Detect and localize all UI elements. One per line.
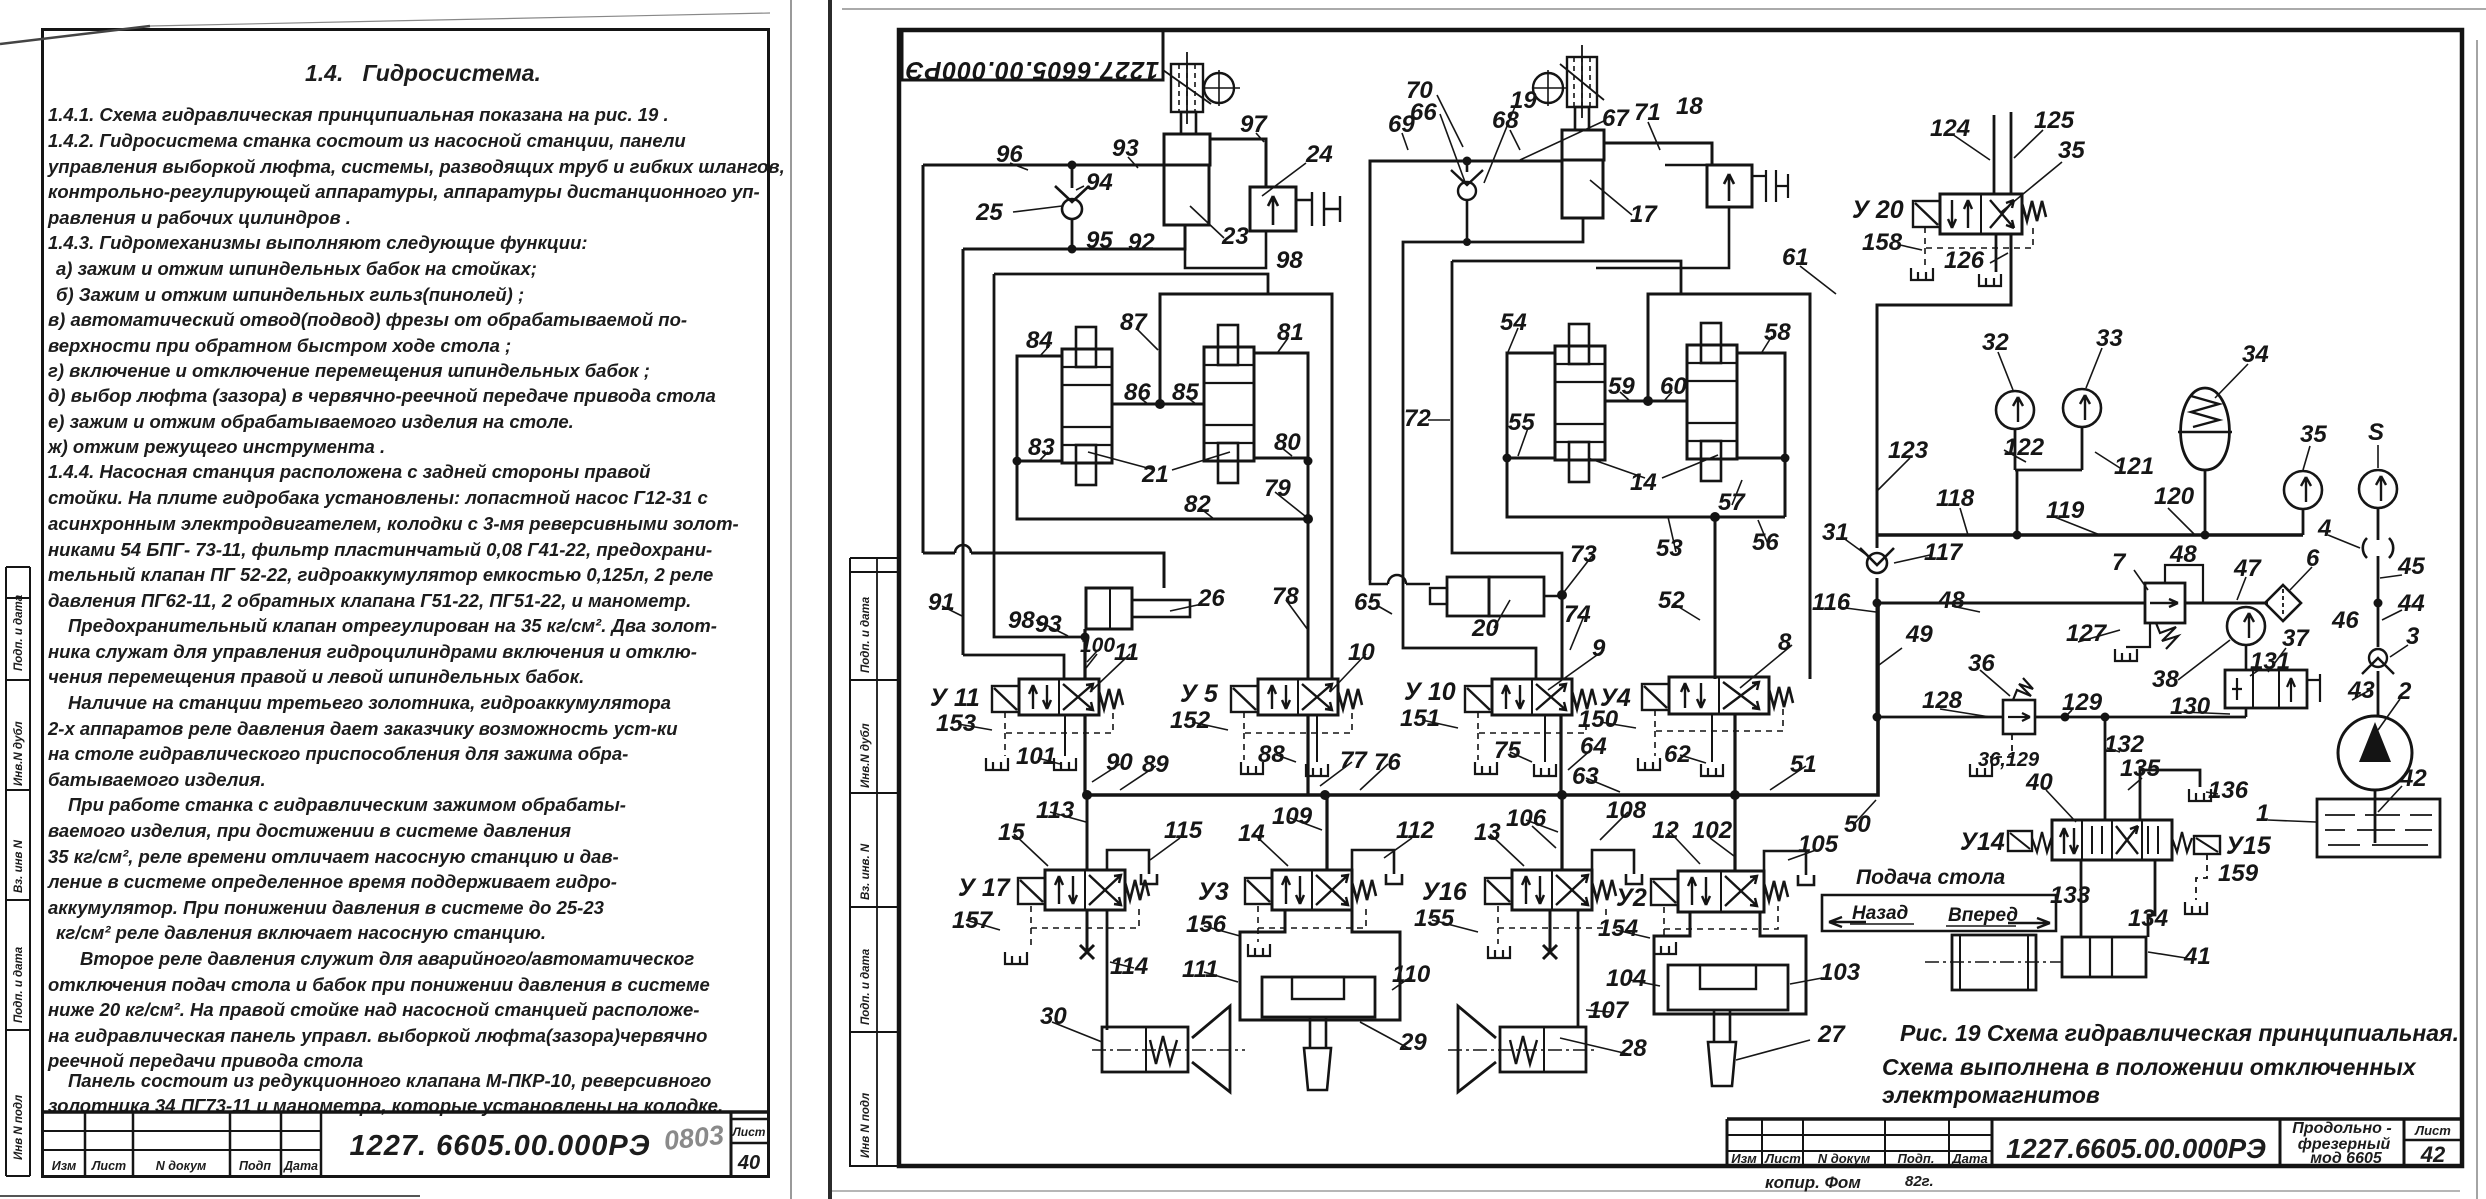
svg-text:119: 119: [2046, 497, 2085, 524]
svg-text:91: 91: [928, 589, 955, 616]
svg-text:48: 48: [2169, 541, 2197, 568]
svg-text:98: 98: [1008, 607, 1035, 634]
pressure bus 118-120: [1877, 533, 2303, 536]
svg-text:66: 66: [1410, 99, 1437, 126]
svg-text:20: 20: [1471, 615, 1499, 642]
svg-text:23: 23: [1221, 223, 1249, 250]
svg-text:28: 28: [1619, 1035, 1647, 1062]
line 128/129/130: [1877, 716, 2246, 719]
svg-text:103: 103: [1820, 959, 1861, 986]
svg-text:Лист: Лист: [1764, 1151, 1801, 1166]
gauge S: [2359, 470, 2397, 508]
valve 24: [1250, 187, 1340, 231]
svg-text:42: 42: [2399, 765, 2427, 792]
wire 71 to valve 18: [1603, 143, 1712, 165]
wire 87 up and over: [1160, 294, 1332, 679]
svg-text:114: 114: [1110, 953, 1148, 980]
cylinder left: [1062, 349, 1112, 463]
pipes 124 125: [1994, 112, 2011, 194]
svg-text:113: 113: [1036, 797, 1075, 824]
wire 98/93 lower: [994, 274, 1085, 637]
svg-text:92: 92: [1128, 229, 1155, 256]
svg-text:84: 84: [1026, 327, 1053, 354]
svg-text:104: 104: [1606, 965, 1646, 992]
clamp block 80: [1254, 353, 1308, 458]
svg-text:33: 33: [2096, 325, 2123, 352]
svg-text:133: 133: [2050, 882, 2091, 909]
svg-text:101: 101: [1016, 743, 1056, 770]
node 44: [2374, 599, 2383, 608]
svg-text:58: 58: [1764, 319, 1791, 346]
svg-text:157: 157: [952, 907, 994, 934]
svg-text:29: 29: [1399, 1029, 1427, 1056]
svg-text:У16: У16: [1422, 878, 1468, 906]
table feed banner: [1822, 895, 2056, 931]
svg-text:1227.6605.00.000РЭ: 1227.6605.00.000РЭ: [905, 56, 1159, 84]
svg-text:93: 93: [1112, 135, 1139, 162]
svg-text:6: 6: [2306, 545, 2320, 572]
svg-text:156: 156: [1186, 911, 1227, 938]
svg-text:46: 46: [2331, 607, 2359, 634]
svg-text:45: 45: [2397, 553, 2425, 580]
svg-text:48: 48: [1937, 587, 1965, 614]
svg-text:13: 13: [1474, 819, 1501, 846]
riser 79/78 down to У5: [1307, 356, 1310, 679]
pump 2: [2338, 716, 2412, 843]
svg-text:80: 80: [1274, 429, 1301, 456]
svg-text:87: 87: [1120, 309, 1148, 336]
svg-text:1: 1: [2256, 800, 2269, 827]
svg-text:51: 51: [1790, 751, 1817, 778]
svg-text:82г.: 82г.: [1905, 1173, 1934, 1190]
item 29 legs: [1240, 910, 1400, 1020]
svg-text:У 10: У 10: [1404, 678, 1456, 706]
svg-text:У 20: У 20: [1852, 196, 1904, 224]
svg-text:Инв N подл: Инв N подл: [860, 1093, 872, 1158]
svg-text:электромагнитов: электромагнитов: [1882, 1082, 2100, 1108]
svg-text:86: 86: [1124, 379, 1151, 406]
title: [305, 60, 1029, 87]
upside-down designation stamp, top-left: [902, 30, 1163, 84]
filter 6: [2265, 585, 2301, 621]
svg-text:75: 75: [1494, 737, 1521, 764]
svg-text:94: 94: [1086, 169, 1113, 196]
159 pilot drain: [2196, 854, 2207, 900]
svg-text:83: 83: [1028, 434, 1055, 461]
svg-text:Инв.N дубл: Инв.N дубл: [860, 723, 872, 788]
svg-text:93: 93: [1035, 611, 1062, 638]
svg-text:21: 21: [1141, 461, 1169, 488]
svg-text:56: 56: [1752, 529, 1779, 556]
output down to node 123 line: [1877, 234, 2011, 535]
svg-text:12: 12: [1652, 817, 1679, 844]
svg-text:S: S: [2368, 419, 2384, 446]
svg-text:90: 90: [1106, 749, 1133, 776]
check valve 31: [1860, 535, 1894, 603]
wire 68/69: [1370, 161, 1562, 580]
wire 66/67: [1403, 218, 1583, 679]
svg-text:8: 8: [1778, 629, 1792, 656]
svg-text:Подп. и дата: Подп. и дата: [860, 948, 872, 1025]
wire 96: [923, 164, 1164, 167]
label leader lines: [942, 95, 2408, 1060]
svg-text:55: 55: [1508, 409, 1535, 436]
svg-text:50: 50: [1844, 811, 1871, 838]
svg-text:127: 127: [2066, 620, 2108, 647]
lines 133/134 down: [2080, 860, 2083, 937]
node 95: [1068, 245, 1077, 254]
title block grid: [44, 1110, 768, 1114]
svg-text:153: 153: [936, 710, 977, 737]
svg-text:65: 65: [1354, 589, 1381, 616]
svg-text:Вперед: Вперед: [1948, 905, 2018, 926]
machine table symbol: [1952, 935, 2036, 990]
svg-text:1227.6605.00.000РЭ: 1227.6605.00.000РЭ: [2006, 1133, 2266, 1164]
svg-text:19: 19: [1510, 87, 1537, 114]
valve 7 + 48 loop + 127 spring: [2115, 565, 2203, 661]
bottom wire 53: [1507, 458, 1785, 517]
svg-text:128: 128: [1922, 687, 1963, 714]
svg-text:151: 151: [1400, 705, 1440, 732]
svg-text:53: 53: [1656, 535, 1683, 562]
svg-text:79: 79: [1264, 475, 1291, 502]
svg-text:Схема выполнена в положении о: Схема выполнена в положении отключенных: [1882, 1054, 2417, 1080]
svg-text:117: 117: [1924, 539, 1964, 566]
svg-text:35: 35: [2058, 137, 2085, 164]
output to drain 126: [1995, 234, 1998, 272]
svg-text:110: 110: [1392, 961, 1431, 988]
svg-text:158: 158: [1862, 229, 1903, 256]
gauge 35: [2284, 471, 2322, 509]
svg-text:74: 74: [1564, 601, 1591, 628]
node 93: [1068, 161, 1077, 170]
svg-text:134: 134: [2128, 905, 2168, 932]
svg-text:копир. Фом: копир. Фом: [1765, 1173, 1861, 1192]
svg-text:125: 125: [2034, 107, 2075, 134]
svg-text:107: 107: [1588, 997, 1630, 1024]
svg-text:100: 100: [1080, 634, 1115, 657]
svg-text:14: 14: [1630, 469, 1657, 496]
svg-text:41: 41: [2183, 943, 2211, 970]
svg-text:35: 35: [2300, 421, 2327, 448]
svg-text:У15: У15: [2226, 832, 2272, 860]
svg-text:73: 73: [1570, 541, 1597, 568]
svg-text:64: 64: [1580, 733, 1607, 760]
seam between the two scanned sheets: [790, 0, 792, 1199]
riser 56 down to У4: [1714, 517, 1717, 679]
svg-text:159: 159: [2218, 860, 2259, 887]
svg-text:54: 54: [1500, 309, 1527, 336]
svg-text:Продольно -: Продольно -: [2292, 1120, 2391, 1137]
svg-text:154: 154: [1598, 915, 1638, 942]
hand pump 23: [1163, 52, 1240, 225]
right sheet paper edges: [832, 8, 2478, 1193]
svg-text:121: 121: [2114, 453, 2154, 480]
svg-text:136: 136: [2208, 777, 2249, 804]
figure caption: [1882, 1020, 2459, 1108]
svg-text:Назад: Назад: [1852, 903, 1909, 924]
svg-text:108: 108: [1606, 797, 1647, 824]
svg-text:17: 17: [1630, 201, 1658, 228]
bus 116 down: [1876, 603, 1879, 717]
svg-text:14: 14: [1238, 820, 1265, 847]
svg-text:44: 44: [2397, 590, 2425, 617]
wire 61 up and over to У4: [1648, 294, 1810, 679]
svg-text:62: 62: [1664, 741, 1691, 768]
item 27 legs: [1654, 912, 1806, 1014]
bus 92 down: [962, 249, 965, 655]
svg-text:67: 67: [1602, 105, 1630, 132]
svg-text:111: 111: [1182, 956, 1218, 983]
svg-text:Изм: Изм: [1731, 1151, 1757, 1166]
svg-text:34: 34: [2242, 341, 2269, 368]
svg-text:30: 30: [1040, 1003, 1067, 1030]
svg-text:52: 52: [1658, 587, 1685, 614]
svg-text:59: 59: [1608, 373, 1635, 400]
svg-text:Подача стола: Подача стола: [1856, 866, 2006, 889]
svg-text:Подп. и дата: Подп. и дата: [860, 596, 872, 673]
wire to valve 26 area: [923, 553, 1164, 588]
valve 18: [1665, 165, 1788, 207]
svg-text:Лист: Лист: [2414, 1123, 2451, 1138]
svg-text:81: 81: [1277, 319, 1304, 346]
pilot dashes + drain 158: [1925, 227, 2033, 248]
svg-text:109: 109: [1272, 803, 1313, 830]
svg-text:Рис. 19 Схема гидравлическая: Рис. 19 Схема гидравлическая принципиаль…: [1900, 1020, 2459, 1046]
svg-text:47: 47: [2233, 555, 2262, 582]
valve 26 plunger: [1086, 588, 1190, 629]
svg-text:36,129: 36,129: [1978, 749, 2040, 771]
gauges 32 33: [1996, 391, 2034, 429]
svg-text:120: 120: [2154, 483, 2195, 510]
svg-text:89: 89: [1142, 751, 1169, 778]
clamp block 84: [1017, 356, 1062, 461]
svg-text:мод 6605: мод 6605: [2310, 1150, 2383, 1167]
motor block 41: [2062, 937, 2146, 977]
left bus 96 down: [922, 165, 925, 553]
svg-text:116: 116: [1812, 589, 1851, 616]
main drawing frame: [850, 30, 2462, 1166]
svg-text:N докум: N докум: [1818, 1151, 1871, 1166]
svg-text:132: 132: [2104, 731, 2145, 758]
svg-text:57: 57: [1718, 489, 1746, 516]
svg-text:72: 72: [1404, 405, 1431, 432]
mid wire 86/85 with node: [1112, 403, 1204, 406]
svg-text:61: 61: [1782, 244, 1809, 271]
svg-text:131: 131: [2250, 648, 2290, 675]
svg-text:97: 97: [1240, 111, 1268, 138]
svg-text:10: 10: [1348, 639, 1375, 666]
svg-text:98: 98: [1276, 247, 1303, 274]
bottom-right title block: [1727, 1119, 2462, 1166]
svg-text:24: 24: [1305, 141, 1333, 168]
accumulator 34: [2178, 388, 2232, 535]
wire 92: [963, 225, 1185, 249]
svg-text:Дата: Дата: [1951, 1151, 1987, 1166]
svg-text:7: 7: [2112, 549, 2127, 576]
svg-text:43: 43: [2347, 677, 2375, 704]
svg-text:112: 112: [1396, 817, 1435, 844]
svg-text:У 17: У 17: [958, 874, 1011, 902]
svg-text:95: 95: [1086, 227, 1113, 254]
svg-text:129: 129: [2062, 689, 2103, 716]
line 47 to filter: [1877, 602, 2268, 605]
svg-text:152: 152: [1170, 707, 1211, 734]
svg-text:71: 71: [1634, 99, 1661, 126]
svg-text:78: 78: [1272, 583, 1299, 610]
svg-text:102: 102: [1692, 817, 1733, 844]
svg-text:150: 150: [1578, 706, 1619, 733]
bottom-left corner marks: [0, 1195, 420, 1197]
relief valve 36: [2003, 700, 2035, 734]
svg-text:27: 27: [1817, 1021, 1846, 1048]
svg-text:18: 18: [1676, 93, 1703, 120]
svg-text:38: 38: [2152, 666, 2179, 693]
wire 98 drain of valve 24: [1185, 231, 1266, 268]
svg-text:85: 85: [1172, 379, 1199, 406]
wire 97: [1210, 139, 1266, 187]
svg-text:49: 49: [1905, 621, 1933, 648]
left sidebar boxes: [6, 567, 30, 1176]
svg-text:9: 9: [1592, 635, 1606, 662]
svg-text:У2: У2: [1616, 884, 1647, 912]
feed to У11: [963, 655, 1064, 679]
svg-text:135: 135: [2120, 755, 2161, 782]
top frame 72: [1452, 261, 1681, 294]
check valve 19: [1463, 157, 1472, 166]
line 132 down to valve 40: [2104, 717, 2107, 820]
bottom wire 82: [1017, 461, 1308, 519]
svg-text:3: 3: [2406, 623, 2420, 650]
svg-text:130: 130: [2170, 693, 2211, 720]
svg-text:96: 96: [996, 141, 1023, 168]
page top-left scan edge: [0, 26, 150, 44]
svg-text:118: 118: [1936, 485, 1975, 512]
svg-text:37: 37: [2282, 625, 2310, 652]
svg-text:122: 122: [2004, 434, 2045, 461]
svg-text:25: 25: [975, 199, 1003, 226]
svg-text:82: 82: [1184, 491, 1211, 518]
svg-text:123: 123: [1888, 437, 1929, 464]
svg-text:42: 42: [2420, 1142, 2446, 1167]
svg-text:15: 15: [998, 819, 1025, 846]
svg-text:124: 124: [1930, 115, 1970, 142]
svg-text:76: 76: [1374, 749, 1401, 776]
svg-text:31: 31: [1822, 519, 1849, 546]
svg-text:32: 32: [1982, 329, 2009, 356]
svg-text:40: 40: [2025, 769, 2053, 796]
svg-text:У 11: У 11: [930, 684, 980, 712]
check valve 25: [1055, 165, 1089, 249]
left page bottom title block: [0, 0, 793, 1199]
gauge 38 + valve 131/37: [2227, 607, 2265, 645]
coupler 4: [2363, 538, 2393, 558]
svg-text:Подп.: Подп.: [1898, 1151, 1935, 1166]
svg-text:26: 26: [1197, 585, 1225, 612]
svg-text:У3: У3: [1198, 878, 1229, 906]
svg-text:115: 115: [1164, 817, 1203, 844]
svg-text:4: 4: [2317, 515, 2331, 542]
svg-text:88: 88: [1258, 741, 1285, 768]
cylinder right: [1204, 347, 1254, 461]
svg-text:60: 60: [1660, 373, 1687, 400]
line 135: [2140, 770, 2200, 820]
svg-text:2: 2: [2397, 678, 2412, 705]
svg-text:126: 126: [1944, 247, 1985, 274]
svg-text:155: 155: [1414, 905, 1455, 932]
svg-text:105: 105: [1798, 831, 1839, 858]
svg-text:Вз. инв. N: Вз. инв. N: [860, 843, 872, 900]
svg-text:У14: У14: [1960, 828, 2005, 856]
svg-text:36: 36: [1968, 650, 1995, 677]
svg-text:63: 63: [1572, 763, 1599, 790]
sidebar column: [850, 558, 899, 1166]
feed frame: [994, 274, 1268, 294]
svg-text:106: 106: [1506, 805, 1547, 832]
check valve 3: [2362, 603, 2394, 717]
valve 40 У14/У15: [2052, 820, 2172, 860]
tank 1/42: [2317, 799, 2440, 857]
svg-text:77: 77: [1340, 747, 1368, 774]
svg-text:У 5: У 5: [1180, 680, 1219, 708]
svg-text:11: 11: [1114, 639, 1139, 666]
